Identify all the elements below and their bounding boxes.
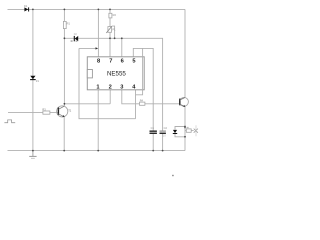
node pot-net38 bbox=[109, 37, 111, 39]
svg-text:6: 6 bbox=[121, 59, 124, 65]
ground bbox=[32, 151, 34, 157]
transistor Q2 bbox=[180, 97, 189, 106]
wire zener branch vertical bbox=[32, 9, 34, 150]
svg-text:R3: R3 bbox=[42, 108, 46, 112]
resistor R4 T2 base bbox=[140, 102, 145, 105]
svg-text:R1: R1 bbox=[67, 21, 71, 25]
wire trigger branch down and to pin2 net bbox=[79, 48, 136, 118]
svg-text:D1: D1 bbox=[24, 4, 28, 8]
svg-text:R4: R4 bbox=[140, 99, 144, 103]
wire T1 collector to pin 2 bbox=[64, 103, 110, 105]
wire arrow line into pin 8 bbox=[79, 47, 97, 49]
resistor R3 T1 base bbox=[43, 111, 50, 114]
capacitor C1 bbox=[150, 131, 157, 132]
arrow into pin 8 bbox=[96, 47, 99, 49]
resistor R2 bbox=[109, 13, 112, 18]
svg-text:8: 8 bbox=[97, 59, 100, 65]
svg-text:10: 10 bbox=[163, 133, 166, 137]
wire T2 emitter down to rail bbox=[184, 107, 186, 151]
wire R1 column top bbox=[63, 9, 65, 38]
svg-text:7: 7 bbox=[109, 59, 112, 65]
node load top bbox=[184, 126, 186, 128]
wire R2 pot pin7 column bbox=[109, 9, 111, 56]
node gnd-C1 bbox=[152, 150, 154, 152]
label load bbox=[187, 127, 189, 128]
label IC1 marks bbox=[71, 40, 73, 42]
svg-text:T1: T1 bbox=[68, 109, 72, 113]
pulse input symbol bbox=[4, 120, 15, 123]
potentiometer P1 bbox=[108, 27, 112, 33]
svg-text:C2: C2 bbox=[164, 126, 168, 130]
svg-text:Z1: Z1 bbox=[36, 79, 40, 83]
wire pin 4 vertical bbox=[135, 90, 137, 119]
wire load branch to lamp bbox=[185, 130, 194, 132]
wire pin4 branch up inside right edge bbox=[136, 48, 143, 94]
wire net38 horizontal to C2 column bbox=[64, 38, 162, 130]
capacitor C2 bbox=[160, 131, 166, 132]
node gnd-zener bbox=[32, 150, 34, 152]
svg-text:NE555: NE555 bbox=[107, 70, 126, 77]
wire right vertical rail to T2 collector bbox=[184, 9, 186, 97]
relay RL1 load box bbox=[186, 129, 191, 132]
node R1-D2 bbox=[64, 37, 66, 39]
wire C2 bottom to rail bbox=[162, 134, 164, 151]
wire R1 node down to T1 collector bbox=[63, 38, 65, 106]
wire pin 8 vertical bbox=[97, 9, 99, 56]
node rail-pin8 bbox=[98, 9, 100, 11]
node gnd-C2 bbox=[162, 150, 164, 152]
node gnd-pin1 bbox=[97, 150, 99, 152]
wire pin 1 to ground rail bbox=[97, 90, 99, 151]
transistor Q1 bbox=[57, 106, 68, 117]
node wiper-net38 bbox=[114, 37, 116, 39]
diode D1 bbox=[24, 7, 28, 11]
op-amp U1 IC NE555 box bbox=[87, 57, 144, 90]
svg-text:R2: R2 bbox=[113, 13, 117, 17]
svg-text:P1: P1 bbox=[112, 27, 116, 31]
arrow on T2 load branch bbox=[184, 127, 186, 129]
svg-text:C1: C1 bbox=[151, 126, 155, 130]
wire pin 6 stub bbox=[121, 38, 123, 57]
wire pin 3 to T2 base bbox=[122, 90, 180, 104]
node rail-R1 bbox=[64, 9, 66, 11]
wire T1 emitter to rail bbox=[63, 117, 65, 151]
wire pin 2 vertical bbox=[109, 90, 111, 104]
flyback diode D3 bbox=[173, 130, 177, 133]
node rail-R2 bbox=[109, 9, 111, 11]
svg-text:D2: D2 bbox=[74, 33, 78, 36]
node gnd-T1 emitter bbox=[63, 150, 65, 152]
node T1 collector bbox=[64, 103, 66, 105]
wire bottom ground rail bbox=[8, 150, 186, 152]
resistor R1 bbox=[63, 21, 66, 28]
IC notch marker bbox=[87, 70, 92, 78]
wire flyback diode loop bbox=[175, 127, 185, 137]
diode D2 bbox=[75, 36, 78, 41]
lamp L1 bbox=[194, 129, 198, 133]
svg-text:1: 1 bbox=[96, 85, 99, 91]
wire pin 5 over to C1 column bbox=[133, 48, 153, 130]
svg-text:3: 3 bbox=[120, 85, 123, 91]
zener diode Z1 bbox=[30, 76, 35, 79]
svg-text:5: 5 bbox=[132, 59, 135, 65]
svg-text:2: 2 bbox=[109, 85, 112, 91]
wire C1 bottom to rail bbox=[152, 134, 154, 151]
node rail-zener bbox=[32, 9, 34, 11]
wire top VCC rail bbox=[8, 8, 186, 10]
stray mark bbox=[172, 175, 174, 176]
node pin6-net38 bbox=[121, 37, 123, 39]
wire input row to T1 base bbox=[8, 112, 58, 114]
node load bottom bbox=[184, 136, 186, 138]
